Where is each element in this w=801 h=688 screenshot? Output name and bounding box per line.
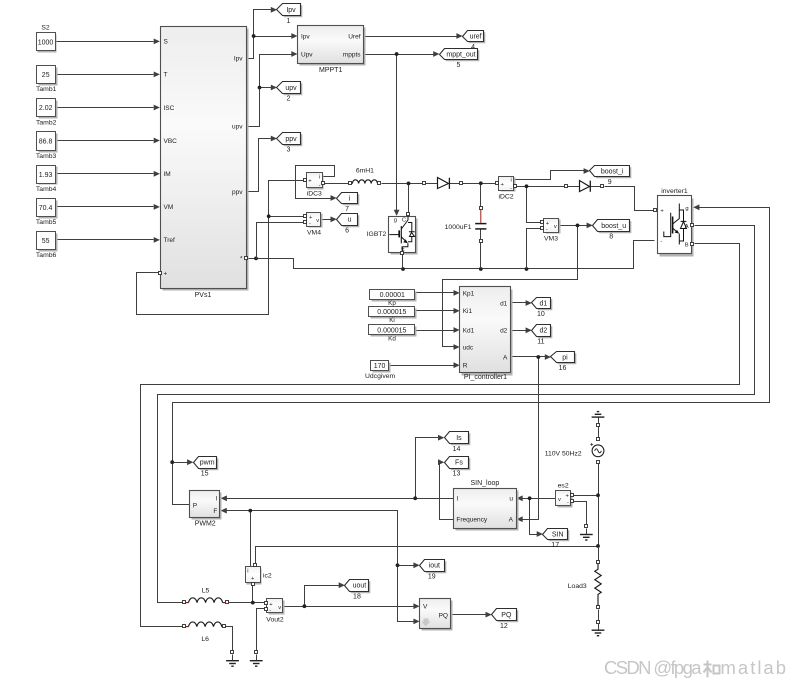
svg-text:14: 14 <box>453 446 461 453</box>
svg-text:Udcgivem: Udcgivem <box>365 373 396 380</box>
outport tag PQ 12 <box>492 609 519 630</box>
label Kd <box>388 336 396 343</box>
svg-text:1000uF1: 1000uF1 <box>445 224 472 231</box>
wire SIN_loop Frequency to Fs tag <box>438 459 454 519</box>
svg-text:Upv: Upv <box>301 51 313 58</box>
svg-text:F: F <box>213 508 217 515</box>
wire rail to Load3 <box>598 547 600 561</box>
diode D1 <box>423 178 463 189</box>
inductor 6mH1 <box>349 167 381 184</box>
svg-text:d1: d1 <box>540 300 548 307</box>
svg-text:g: g <box>394 218 397 224</box>
wire VM input <box>55 204 160 210</box>
wire iDC2 to D2 and VM3 plus branch <box>516 184 565 222</box>
svg-text:u: u <box>348 217 352 224</box>
svg-text:PVs1: PVs1 <box>195 292 212 299</box>
svg-text:Vout2: Vout2 <box>266 617 284 624</box>
port squares Vout2 <box>265 602 268 611</box>
wire D2 to inverter1 plus <box>605 187 654 211</box>
wire VM3 v to boost_u tag and PI udc <box>443 223 593 350</box>
svg-text:6mH1: 6mH1 <box>356 167 374 174</box>
outport tag uout 18 <box>345 580 371 601</box>
svg-text:PQ: PQ <box>439 612 448 619</box>
svg-text:S: S <box>164 39 169 46</box>
svg-text:3: 3 <box>287 147 291 154</box>
svg-text:IGBT2: IGBT2 <box>367 231 387 238</box>
wire iDC3 to 6mH1 <box>325 183 349 185</box>
svg-text:u: u <box>509 496 513 503</box>
svg-text:19: 19 <box>428 574 436 581</box>
wire Kd to PI <box>415 327 460 333</box>
label Kp <box>388 300 396 307</box>
constant Tamb1 <box>36 66 58 93</box>
svg-text:udc: udc <box>463 344 474 351</box>
svg-text:6: 6 <box>345 228 349 235</box>
svg-text:VM3: VM3 <box>544 236 558 243</box>
svg-text:Kp1: Kp1 <box>463 290 475 297</box>
svg-text:ic2: ic2 <box>263 572 272 579</box>
svg-text:iout: iout <box>429 563 440 570</box>
svg-text:mppt_out: mppt_out <box>446 51 475 58</box>
diode D2 <box>565 181 604 192</box>
outport tag uref 4 <box>463 31 486 52</box>
svg-text:boost_u: boost_u <box>601 223 626 230</box>
svg-text:pwm: pwm <box>200 460 215 467</box>
wire Vout2 v to uout tag and PQ V <box>284 582 420 609</box>
constant Tamb3 <box>36 132 58 161</box>
svg-text:g: g <box>685 206 688 212</box>
wire Ipv net <box>247 7 298 59</box>
svg-text:170: 170 <box>374 363 386 370</box>
resistor Load3 <box>568 561 601 621</box>
wire Ki to PI <box>415 308 460 314</box>
ground es2 <box>580 525 593 541</box>
svg-text:boost_i: boost_i <box>601 168 624 175</box>
svg-text:V: V <box>423 604 428 611</box>
svg-text:d2: d2 <box>500 328 508 335</box>
outport tag Is 14 <box>445 432 471 453</box>
port squares iDC3 <box>304 179 325 185</box>
svg-text:12: 12 <box>500 623 508 630</box>
outport tag iout 19 <box>420 560 447 581</box>
svg-text:A: A <box>503 354 508 361</box>
svg-text:1.93: 1.93 <box>39 172 53 179</box>
svg-text:v: v <box>278 605 281 611</box>
svg-text:uref: uref <box>470 33 482 40</box>
svg-text:i: i <box>319 174 320 180</box>
constant Tamb2 <box>36 99 58 127</box>
svg-text:R: R <box>463 363 468 370</box>
svg-text:SIN_loop: SIN_loop <box>471 480 500 487</box>
constant Tamb6 <box>36 232 58 260</box>
svg-text:d2: d2 <box>540 328 548 335</box>
wire SIN_loop I output to PWM2 I and Is tag <box>221 435 454 501</box>
svg-text:VBC: VBC <box>164 138 178 145</box>
svg-text:ISC: ISC <box>164 105 175 112</box>
wire PV positive loop <box>137 181 304 315</box>
outport tag i 7 <box>337 193 360 214</box>
svg-text:ppv: ppv <box>285 136 297 143</box>
constant Ki <box>369 307 417 319</box>
svg-text:18: 18 <box>353 593 361 600</box>
port squares iDC2 <box>496 182 517 188</box>
svg-text:inverter1: inverter1 <box>661 188 688 195</box>
current measurement ic2 <box>246 567 272 585</box>
svg-text:Ki1: Ki1 <box>463 308 473 315</box>
svg-text:CSDN @fpga: CSDN @fpga <box>604 657 702 678</box>
constant Udcgivem <box>365 361 396 381</box>
ground Load3 <box>592 621 605 636</box>
svg-text:-: - <box>319 183 321 189</box>
constant Kp <box>370 290 417 302</box>
wire ic2 to grid rail <box>256 547 599 564</box>
svg-text:25: 25 <box>42 72 50 79</box>
svg-text:I: I <box>456 496 458 503</box>
outport tag SIN 17 <box>543 529 570 550</box>
svg-text:v: v <box>558 497 561 503</box>
svg-text:8: 8 <box>609 234 613 241</box>
svg-text:15: 15 <box>201 470 209 477</box>
wire iDC2 i output to boost_i tag <box>514 168 590 179</box>
watermark CSDN <box>604 657 786 678</box>
svg-text:Tamb6: Tamb6 <box>36 252 57 259</box>
svg-text:Is: Is <box>456 435 462 442</box>
svg-text:PQ: PQ <box>501 612 512 619</box>
outport tag pi 16 <box>551 352 577 373</box>
svg-text:55: 55 <box>42 238 50 245</box>
svg-text:T: T <box>164 72 168 79</box>
svg-text:1: 1 <box>287 18 291 25</box>
wire IM input <box>55 171 160 177</box>
svg-text:SIN: SIN <box>552 531 564 538</box>
svg-text:+: + <box>308 179 312 185</box>
svg-text:B: B <box>685 242 689 248</box>
inverter block inverter1 <box>654 188 694 257</box>
svg-text:11: 11 <box>537 339 544 346</box>
svg-text:86.8: 86.8 <box>39 139 53 146</box>
svg-text:Tamb2: Tamb2 <box>36 119 57 126</box>
svg-text:pi: pi <box>562 354 568 361</box>
svg-text:9: 9 <box>608 179 612 186</box>
wire VM4 v to u tag <box>323 216 337 222</box>
svg-text:110V 50Hz2: 110V 50Hz2 <box>545 450 582 457</box>
svg-text:Tamb4: Tamb4 <box>36 186 57 193</box>
outport tag upv 2 <box>277 82 303 103</box>
svg-text:1000: 1000 <box>38 39 54 46</box>
svg-text:VM: VM <box>164 204 174 211</box>
svg-text:-: - <box>309 221 311 227</box>
outport tag Fs 13 <box>445 457 471 478</box>
svg-text:v: v <box>316 218 319 224</box>
transistor block IGBT2 <box>367 213 418 255</box>
wire VBC input <box>55 138 160 144</box>
subsystem PI_controller1 <box>460 287 513 381</box>
inductor L6 <box>183 622 226 643</box>
wire inverter1 B to L6 <box>141 244 740 627</box>
svg-text:i: i <box>511 178 512 184</box>
svg-text:-: - <box>567 500 569 506</box>
measurement block PQ <box>420 599 453 631</box>
svg-text:iDC2: iDC2 <box>498 194 513 201</box>
wire Tref input <box>55 237 160 243</box>
svg-text:d1: d1 <box>500 300 508 307</box>
svg-text:MPPT1: MPPT1 <box>319 67 342 74</box>
outport tag d1 10 <box>532 298 553 319</box>
svg-text:13: 13 <box>453 470 461 477</box>
svg-text:0.00001: 0.00001 <box>380 292 405 299</box>
constant Kd <box>369 325 417 337</box>
svg-text:Ipv: Ipv <box>286 7 296 14</box>
svg-text:v: v <box>554 224 557 230</box>
wire Vout2 minus to ground <box>257 609 266 651</box>
wire iDC3 i output loop <box>296 166 337 201</box>
svg-text:Tamb1: Tamb1 <box>36 86 57 93</box>
wire current feedback line to PWM2 F, iout, PQ U <box>221 508 420 625</box>
svg-text:Tamb5: Tamb5 <box>36 219 57 226</box>
wire VM3 minus to rail <box>527 229 541 269</box>
svg-text:A: A <box>509 517 514 524</box>
svg-text:mppts: mppts <box>343 51 361 58</box>
svg-text:PWM2: PWM2 <box>195 521 216 528</box>
svg-text:Uref: Uref <box>348 33 360 40</box>
outport tag boost_i 9 <box>590 166 632 187</box>
svg-text:Kd1: Kd1 <box>463 327 475 334</box>
svg-text:Frequency: Frequency <box>456 517 487 524</box>
svg-text:Kd: Kd <box>388 336 396 343</box>
wire VM4 minus branch <box>257 223 304 259</box>
wire S input <box>55 39 160 45</box>
subsystem MPPT1 <box>298 26 366 74</box>
outport tag Ipv 1 <box>277 4 303 26</box>
wire upv net <box>247 51 298 126</box>
svg-text:Ipv: Ipv <box>234 55 243 62</box>
outport tag ppv 3 <box>277 133 303 154</box>
svg-text:upv: upv <box>285 85 297 92</box>
svg-text:VM4: VM4 <box>307 230 321 237</box>
wire mppts net to mppt_out and IGBT2 gate <box>365 51 440 216</box>
svg-text:Kp: Kp <box>388 300 396 307</box>
wire 6mH1 to diode D1 and IGBT2 collector branch <box>382 182 423 213</box>
svg-text:P: P <box>193 502 197 509</box>
ground above AC source <box>592 412 605 427</box>
wire PWM2 P output to pwm tag and inverter1 g <box>170 204 769 504</box>
outport tag pwm 15 <box>194 457 219 478</box>
wire DC negative rail <box>247 241 655 271</box>
svg-text:IM: IM <box>164 171 171 178</box>
svg-text:Fs: Fs <box>455 460 463 467</box>
svg-text:PI_controller1: PI_controller1 <box>464 374 507 381</box>
subsystem PVs1 <box>159 27 249 299</box>
svg-text:2: 2 <box>287 96 291 103</box>
ground Vout2 <box>250 651 263 667</box>
outport tag boost_u 8 <box>593 220 632 241</box>
capacitor 1000uF1 <box>445 207 487 243</box>
constant Tamb4 <box>36 166 58 193</box>
svg-text:Ipv: Ipv <box>301 33 310 40</box>
svg-text:matlab: matlab <box>721 657 787 678</box>
constant S2 <box>37 24 57 52</box>
svg-text:-: - <box>510 185 512 191</box>
subsystem PWM2 <box>190 491 222 528</box>
label Ki <box>389 317 395 324</box>
svg-text:+: + <box>546 221 550 227</box>
wire PI A output to pi tag and SIN_loop A <box>511 354 552 522</box>
current measurement iDC2 <box>498 177 515 201</box>
wire T input <box>55 72 160 78</box>
svg-text:L6: L6 <box>201 636 209 643</box>
svg-text:es2: es2 <box>558 482 569 489</box>
wire inverter1 A to L5 <box>158 226 755 603</box>
wire ISC input <box>55 105 160 111</box>
svg-text:5: 5 <box>457 62 461 69</box>
wire ppv net <box>247 136 278 192</box>
current measurement iDC3 <box>307 173 324 198</box>
svg-text:Ki: Ki <box>389 317 395 324</box>
wire es2 terminals <box>573 496 597 525</box>
svg-text:+: + <box>164 270 168 277</box>
voltage measurement VM4 <box>307 213 323 237</box>
constant Tamb5 <box>36 199 58 226</box>
svg-text:10: 10 <box>537 311 545 318</box>
svg-text:0.000015: 0.000015 <box>377 327 406 334</box>
AC voltage source 110V 50Hz2 <box>545 438 604 464</box>
voltage measurement es2 <box>556 482 573 507</box>
outport tag mppt_out 5 <box>440 49 480 70</box>
svg-text:uout: uout <box>353 583 367 590</box>
wire ic2 i output to F line <box>250 511 252 567</box>
wire PQ output to PQ tag <box>452 612 492 618</box>
svg-text:I: I <box>215 496 217 503</box>
port squares ic2 <box>252 564 257 586</box>
ground L6 <box>226 651 239 667</box>
svg-text:-: - <box>269 608 271 614</box>
voltage measurement VM3 <box>544 219 561 243</box>
svg-text:-: - <box>660 239 662 245</box>
wire AC source vertical <box>596 427 600 548</box>
svg-text:7: 7 <box>345 206 349 213</box>
wire L6 to ground <box>226 627 233 651</box>
svg-text:upv: upv <box>232 123 243 130</box>
wire PI d2 output <box>511 327 532 333</box>
port squares VM4 <box>304 215 307 224</box>
port squares VM3 <box>541 221 544 230</box>
svg-text:Tref: Tref <box>164 237 176 244</box>
wire PI d1 output <box>511 300 532 306</box>
outport tag d2 11 <box>532 325 553 346</box>
svg-text:2.02: 2.02 <box>39 105 53 112</box>
svg-text:ppv: ppv <box>232 189 243 196</box>
wire L5 to ic2 and Vout2 <box>229 586 265 605</box>
svg-text:Tamb3: Tamb3 <box>36 153 57 160</box>
svg-text:L5: L5 <box>202 587 210 594</box>
svg-text:16: 16 <box>559 365 567 372</box>
outport tag u 6 <box>337 214 360 235</box>
svg-text:iDC3: iDC3 <box>307 191 322 198</box>
wire Kp to PI <box>415 290 460 296</box>
inductor L5 <box>183 587 229 603</box>
wire Udcgivem to PI R <box>389 362 460 368</box>
voltage measurement Vout2 <box>266 599 284 624</box>
wire capacitor bottom to rail <box>480 243 482 269</box>
svg-text:Load3: Load3 <box>568 583 587 590</box>
wire D1 to iDC2 and capacitor branch <box>463 181 496 206</box>
wire Uref to uref tag <box>365 33 463 39</box>
svg-text:i: i <box>247 568 248 574</box>
svg-text:S2: S2 <box>41 24 50 31</box>
svg-text:70.4: 70.4 <box>39 205 53 212</box>
wire es2 v to SIN_loop u and SIN tag <box>517 495 556 536</box>
port squares es2 <box>571 494 574 503</box>
subsystem SIN_loop <box>454 480 519 530</box>
wire IGBT2 emitter to rail <box>402 255 404 269</box>
svg-text:0.000015: 0.000015 <box>377 309 406 316</box>
svg-text:-: - <box>546 227 548 233</box>
svg-text:17: 17 <box>551 542 559 549</box>
